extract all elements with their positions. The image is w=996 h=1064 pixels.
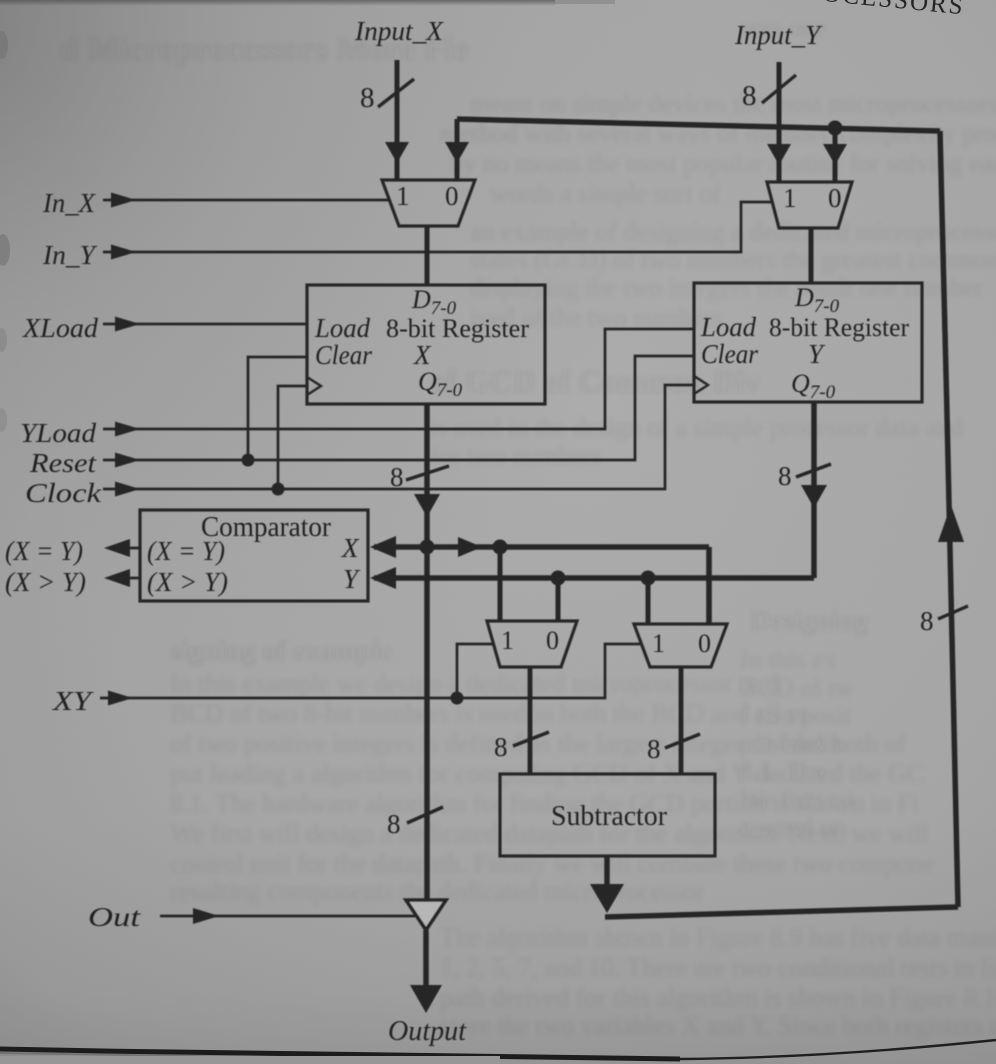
svg-text:We first will design a dedicat: We first will design a dedicated datapat… (170, 819, 929, 848)
wire YLoad to register Y Load (103, 329, 694, 429)
junction X bus at X row (420, 540, 435, 555)
wire comparator X=Y output stub (110, 547, 140, 550)
svg-text:1: 1 (783, 183, 797, 213)
svg-text:X: X (341, 533, 360, 563)
wire mux M3 pin1 stem (498, 547, 503, 621)
svg-text:states (GCD) of two numbers th: states (GCD) of two numbers the greatest… (470, 245, 996, 274)
wire mux M2 pin0 stem (833, 128, 838, 182)
junction XY branch (451, 692, 464, 705)
wire Input_Y stem (777, 62, 782, 158)
junction Clock branch (272, 483, 285, 496)
junction Reset branch (242, 454, 255, 467)
svg-text:signing of example: signing of example (170, 636, 392, 667)
wire Reset row (103, 356, 694, 460)
svg-text:BCD of two 8-bit numbers is us: BCD of two 8-bit numbers is used in both… (170, 699, 808, 728)
svg-text:XY: XY (52, 686, 95, 716)
svg-text:8: 8 (494, 732, 508, 762)
svg-text:(X = Y): (X = Y) (147, 536, 225, 566)
wire Clock row (103, 385, 694, 489)
arrow X bus downward (414, 494, 440, 517)
subtractor box (500, 774, 715, 856)
svg-text:Clock: Clock (25, 478, 102, 508)
svg-text:words a simple sort of: words a simple sort of (490, 179, 721, 208)
svg-text:Load: Load (314, 313, 370, 343)
mux M1 (382, 180, 475, 226)
svg-text:an example of designing a dedi: an example of designing a dedicated micr… (470, 217, 996, 246)
register X clock pin triangle (307, 377, 321, 395)
svg-text:Clear: Clear (315, 340, 372, 370)
bus tri-state output (423, 930, 429, 995)
svg-text:In_Y: In_Y (42, 240, 98, 270)
svg-text:In_X: In_X (42, 188, 96, 218)
svg-text:meant on simple devices the mo: meant on simple devices the most micropr… (470, 89, 996, 118)
arrow Input_Y into mux M2 pin1 (767, 144, 791, 165)
arrow into mux M2 pin0 (823, 144, 847, 165)
page bottom edge line (0, 1049, 680, 1059)
wire Out to tri-state enable (160, 915, 415, 918)
svg-text:8.1. The hardware algorithm fo: 8.1. The hardware algorithm for finding … (170, 789, 919, 818)
wire XLoad to register X Load (103, 323, 307, 326)
svg-text:0: 0 (445, 181, 459, 211)
arrow Output (410, 985, 442, 1013)
register Y clock pin triangle (694, 376, 708, 394)
svg-text:(X > Y): (X > Y) (5, 567, 86, 597)
junction X row to mux M3 pin1 (493, 540, 508, 555)
svg-text:Input_X: Input_X (354, 16, 445, 46)
wire mux M1 pin0 stem (455, 119, 460, 180)
svg-text:Load: Load (700, 312, 756, 342)
svg-text:(X = Y): (X = Y) (5, 536, 83, 566)
svg-text:displaying the two integers th: displaying the two integers the result o… (470, 273, 984, 302)
arrow feedback upward (938, 505, 964, 542)
svg-text:path derived for this algorith: path derived for this algorithm is shown… (440, 983, 996, 1012)
svg-text:control unit for the datapath.: control unit for the datapath. Finally w… (170, 849, 934, 878)
svg-text:8: 8 (387, 809, 401, 839)
bus mux M3 output (528, 667, 533, 774)
mux M4 (634, 624, 727, 667)
arrow into mux M1 pin0 (445, 142, 469, 163)
svg-text:8-bit Register: 8-bit Register (386, 314, 529, 343)
wire Input_X stem (395, 60, 400, 156)
svg-text:Input_Y: Input_Y (734, 20, 823, 50)
svg-text:X: X (413, 340, 432, 370)
junction feedback to mux M2 pin0 (828, 121, 843, 136)
bus subtractor output (604, 856, 610, 896)
tri-state buffer U1 (406, 900, 446, 930)
svg-text:The algorithm shown in Figure: The algorithm shown in Figure 8.9 has fi… (440, 923, 996, 952)
bus register X output (424, 404, 430, 900)
svg-text:0: 0 (546, 626, 559, 655)
svg-text:Subtractor: Subtractor (551, 801, 668, 832)
svg-text:store the two variables X and: store the two variables X and Y. Since b… (440, 1011, 996, 1040)
arrow rightward on X row (458, 537, 482, 557)
junction Y row to mux M4 pin1 (641, 571, 656, 586)
svg-text:8: 8 (647, 734, 661, 764)
arrow Y bus downward (801, 485, 827, 508)
svg-text:0: 0 (698, 629, 711, 658)
bus row Y (to comparator Y input) (374, 575, 814, 581)
mux M2 (767, 182, 852, 228)
bus feedback right vertical (940, 131, 958, 907)
junction Y row to mux M3 pin0 (551, 571, 566, 586)
svg-text:of two positive integers is de: of two positive integers is defined as t… (170, 729, 906, 758)
svg-text:8: 8 (920, 606, 934, 636)
svg-text:1: 1 (396, 181, 410, 211)
bus feedback bottom (605, 907, 958, 917)
svg-text:8-bit Register: 8-bit Register (769, 313, 909, 342)
wire X row down to mux M4 pin0 (706, 547, 712, 624)
wire In_Y to mux M2 select (103, 202, 771, 252)
wire Clock to register X clk (278, 386, 307, 489)
register X box (307, 285, 545, 404)
svg-text:8: 8 (742, 80, 757, 112)
comparator box (140, 510, 368, 601)
wire feedback top horizontal (457, 119, 940, 131)
wire mux M4 pin1 stem (646, 578, 651, 624)
bus mux M4 output (679, 667, 684, 774)
wire XY row (100, 644, 640, 698)
arrow into comparator Y (370, 567, 396, 589)
svg-text:for two numbers: for two numbers (430, 441, 602, 470)
wire XY to mux M3 select (457, 644, 494, 698)
svg-text:is used in the design of a sim: is used in the design of a simple proces… (430, 413, 963, 442)
svg-text:8: 8 (390, 462, 404, 492)
svg-text:1: 1 (652, 629, 665, 658)
svg-text:In this example we design a de: In this example we design a dedicated mi… (170, 669, 779, 698)
wire In_X to mux M1 select (103, 199, 390, 202)
svg-text:XLoad: XLoad (22, 313, 99, 343)
register Y box (694, 283, 922, 403)
mux M3 (487, 621, 577, 667)
arrow into comparator X (370, 536, 396, 558)
arrow Input_X into mux M1 pin1 (385, 142, 409, 163)
bus row X (to comparator X input) (374, 544, 709, 550)
svg-text:8: 8 (360, 82, 375, 114)
svg-text:Out: Out (88, 902, 142, 932)
svg-text:(X > Y): (X > Y) (147, 567, 228, 597)
svg-text:0: 0 (828, 183, 842, 213)
svg-text:Output: Output (388, 1016, 467, 1047)
wire mux M3 pin0 stem (556, 578, 561, 621)
svg-text:YLoad: YLoad (20, 418, 97, 448)
arrow subtractor output down (590, 884, 624, 913)
svg-text:1: 1 (501, 626, 514, 655)
wire comparator X>Y output stub (110, 577, 140, 580)
svg-text:Designing: Designing (750, 606, 868, 637)
svg-text:1, 2, 5, 7, and 10. There are: 1, 2, 5, 7, and 10. There are two condit… (440, 953, 996, 982)
running header OCESSORS (821, 0, 965, 20)
svg-text:by no means the most popular r: by no means the most popular routine for… (450, 149, 996, 178)
svg-text:Clear: Clear (701, 339, 758, 369)
svg-text:8: 8 (778, 461, 792, 491)
bus register Y output (811, 402, 817, 578)
wire mux M1 output to register X (425, 226, 430, 285)
svg-text:Reset: Reset (29, 448, 98, 478)
wire mux M2 output to register Y (809, 228, 814, 283)
wire Reset to register X Clear (248, 357, 307, 460)
